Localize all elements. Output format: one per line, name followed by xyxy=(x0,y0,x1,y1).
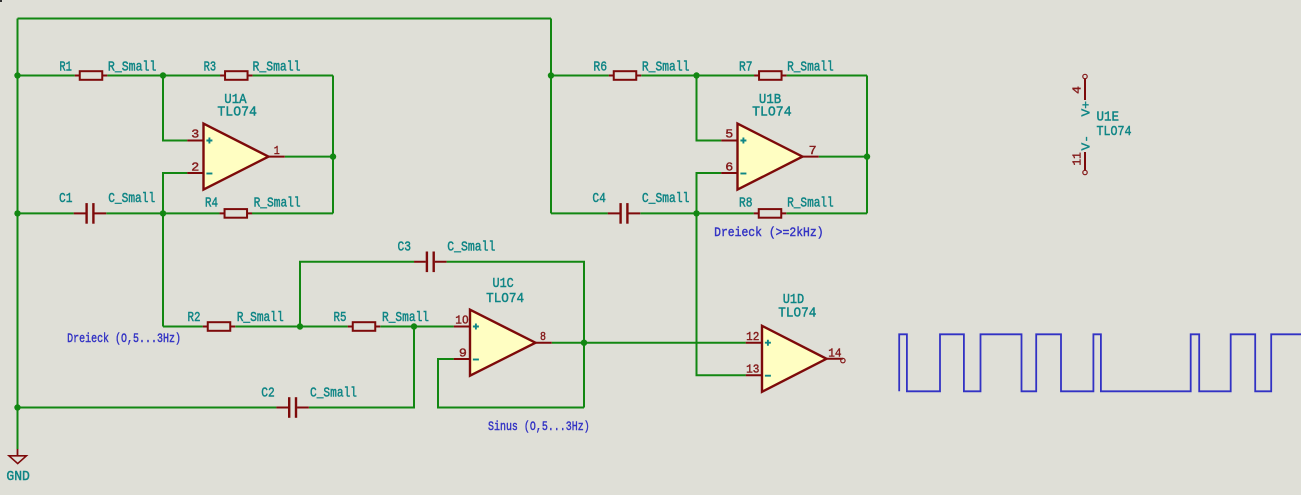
capacitor C2 xyxy=(276,397,309,418)
junction U1C output xyxy=(581,340,587,346)
svg-text:R_Small: R_Small xyxy=(253,60,301,76)
svg-text:14: 14 xyxy=(828,346,841,360)
resistor R5 xyxy=(348,322,381,331)
op-amp U1D xyxy=(746,326,843,392)
svg-text:C_Small: C_Small xyxy=(447,239,495,255)
ground symbol xyxy=(9,449,26,464)
wire row2 section A xyxy=(18,212,334,214)
svg-text:12: 12 xyxy=(746,330,759,344)
svg-text:TLO74: TLO74 xyxy=(752,105,792,121)
svg-text:R_Small: R_Small xyxy=(787,60,834,76)
junction B top xyxy=(548,72,554,78)
wire section B top drop xyxy=(550,19,552,214)
svg-text:R_Small: R_Small xyxy=(254,196,301,212)
svg-text:TLO74: TLO74 xyxy=(1097,124,1132,140)
svg-text:Sinus (O,5...3Hz): Sinus (O,5...3Hz) xyxy=(488,419,590,434)
op-amp U1E power pins xyxy=(1083,74,1087,174)
op-amp U1B xyxy=(721,124,819,190)
wire row1 section A xyxy=(18,75,334,77)
sheet corner mark xyxy=(0,0,2,2)
svg-text:C1: C1 xyxy=(59,191,73,207)
svg-text:1O: 1O xyxy=(455,314,468,328)
resistor R7 xyxy=(754,71,787,80)
junction node B row2 xyxy=(693,210,699,216)
wire pin5 branch xyxy=(697,76,722,141)
op-amp U1C xyxy=(454,310,552,376)
svg-text:TLO74: TLO74 xyxy=(778,306,816,322)
svg-text:R_Small: R_Small xyxy=(108,60,156,76)
wire top rail xyxy=(18,18,552,20)
junction left rail C2 row xyxy=(14,404,20,410)
svg-text:R7: R7 xyxy=(739,60,753,76)
pin 14 open-end circle xyxy=(841,358,845,362)
svg-text:Dreieck (>=2kHz): Dreieck (>=2kHz) xyxy=(714,225,824,240)
svg-text:C_Small: C_Small xyxy=(310,386,357,402)
svg-text:R3: R3 xyxy=(204,60,217,76)
wire pin6 branch down to pin13 xyxy=(697,173,746,375)
svg-text:2: 2 xyxy=(191,161,199,175)
svg-text:8: 8 xyxy=(540,330,546,344)
square wave plot xyxy=(899,334,1301,391)
capacitor C3 xyxy=(414,252,447,273)
svg-text:13: 13 xyxy=(746,362,759,376)
resistor R3 xyxy=(220,71,253,80)
svg-text:4: 4 xyxy=(1071,86,1085,94)
wire right rail B xyxy=(866,76,868,214)
wire U1B output xyxy=(819,156,867,158)
resistor R1 xyxy=(75,71,108,80)
junction node A row1 xyxy=(160,72,166,78)
svg-text:R4: R4 xyxy=(205,196,218,212)
svg-text:C2: C2 xyxy=(261,386,275,402)
junction U1A output xyxy=(330,153,336,159)
capacitor C4 xyxy=(608,203,641,224)
junction left rail row2 xyxy=(14,210,20,216)
wire pin9 feedback xyxy=(438,359,584,408)
svg-text:R_Small: R_Small xyxy=(642,60,690,76)
svg-text:3: 3 xyxy=(191,128,199,142)
svg-text:R2: R2 xyxy=(188,310,201,326)
wire C2 row xyxy=(18,327,415,408)
svg-text:V-: V- xyxy=(1080,135,1094,151)
wire pin3 branch xyxy=(163,76,187,141)
wire row2 section B xyxy=(551,212,867,214)
wire C3 branch xyxy=(300,262,584,408)
svg-text:7: 7 xyxy=(809,144,817,158)
junction node B row1 xyxy=(693,72,699,78)
svg-text:R6: R6 xyxy=(593,60,607,76)
resistor R6 xyxy=(609,71,642,80)
svg-text:U1C: U1C xyxy=(493,276,514,292)
junction node A row2 xyxy=(160,210,166,216)
wire U1C output to pin12 xyxy=(552,342,746,344)
wire U1A output xyxy=(285,156,333,158)
svg-text:9: 9 xyxy=(459,347,467,361)
resistor R2 xyxy=(203,322,236,331)
svg-text:R_Small: R_Small xyxy=(382,310,429,326)
junction R5 output node xyxy=(411,323,417,329)
capacitor C1 xyxy=(74,203,107,224)
svg-text:5: 5 xyxy=(725,128,733,142)
wire left rail xyxy=(17,19,19,450)
svg-text:C_Small: C_Small xyxy=(642,191,690,207)
svg-text:6: 6 xyxy=(725,161,733,175)
svg-text:Dreieck (O,5...3Hz): Dreieck (O,5...3Hz) xyxy=(67,331,181,346)
wire row1 section B xyxy=(551,75,867,77)
op-amp U1A xyxy=(187,124,285,190)
resistor R8 xyxy=(754,209,787,218)
svg-text:11: 11 xyxy=(1071,152,1085,165)
svg-text:R5: R5 xyxy=(334,310,347,326)
svg-text:R_Small: R_Small xyxy=(787,196,834,212)
junction R2 R5 node xyxy=(297,323,303,329)
svg-text:TLO74: TLO74 xyxy=(217,105,257,121)
junction U1B output xyxy=(864,153,870,159)
svg-text:V+: V+ xyxy=(1080,101,1094,117)
wire pin2 branch xyxy=(163,173,187,327)
svg-text:1: 1 xyxy=(274,144,280,158)
wire right rail A xyxy=(332,76,334,214)
svg-text:C4: C4 xyxy=(592,191,606,207)
junction left rail row1 xyxy=(14,72,20,78)
svg-text:R1: R1 xyxy=(59,60,72,76)
svg-text:R8: R8 xyxy=(739,196,753,212)
wire row3 R2 R5 xyxy=(163,326,454,328)
svg-text:TLO74: TLO74 xyxy=(486,291,524,307)
svg-text:C3: C3 xyxy=(398,239,412,255)
svg-text:C_Small: C_Small xyxy=(108,191,155,207)
svg-text:GND: GND xyxy=(6,469,30,485)
svg-text:R_Small: R_Small xyxy=(237,310,284,326)
resistor R4 xyxy=(220,209,253,218)
